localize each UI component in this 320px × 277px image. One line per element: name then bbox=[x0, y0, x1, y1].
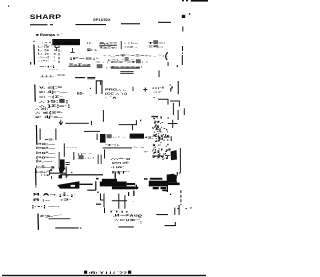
wire verticals down g bbox=[40, 129, 41, 141]
row3 double dash e bbox=[120, 71, 133, 72]
note underline bbox=[49, 217, 71, 220]
ground symbol bbox=[70, 48, 74, 52]
svg-text:+·: +· bbox=[144, 150, 149, 154]
wire vertical n bbox=[104, 149, 105, 158]
header rule dash bbox=[50, 24, 53, 25]
double wire vertical s bbox=[97, 155, 100, 164]
dash right y214 bbox=[156, 214, 168, 215]
svg-text:⊥⊥⊥·: ⊥⊥⊥· bbox=[40, 74, 55, 78]
small tick bbox=[140, 120, 141, 122]
black component bar 2 bbox=[130, 134, 144, 139]
tick above bbox=[115, 172, 116, 179]
svg-text:¦·•·¦ —·: ¦·•·¦ —· bbox=[32, 205, 61, 209]
header rule segment B bbox=[76, 24, 107, 25]
wire corner inner bbox=[158, 99, 168, 104]
right cluster blob bbox=[168, 174, 177, 183]
wire horizontal t bbox=[50, 173, 66, 174]
svg-text:≈≈: ≈≈ bbox=[57, 73, 66, 77]
svg-text:■ Eamạs < ´: ■ Eamạs < ´ bbox=[36, 33, 63, 37]
long wire vertical right bbox=[180, 148, 181, 172]
svg-text:I».—·: I».—· bbox=[36, 160, 53, 164]
svg-text:· ´∧: · ´∧ bbox=[105, 95, 117, 99]
tick y2 bbox=[128, 192, 129, 196]
thick bar long 2 bbox=[100, 182, 127, 187]
thick bar small 3 bbox=[112, 186, 135, 189]
svg-text:v. ≤(:=: v. ≤(:= bbox=[39, 86, 62, 90]
speck top-left bbox=[8, 6, 9, 7]
svg-text:ΓΓΓ´: ΓΓΓ´ bbox=[112, 170, 131, 174]
svg-text:..: .. bbox=[132, 199, 134, 203]
photodetector stipple band bbox=[152, 116, 169, 160]
tick y3 bbox=[133, 191, 134, 196]
svg-text::·: :· bbox=[54, 59, 56, 63]
wire vertical right low2 bbox=[179, 205, 180, 215]
header rule segment A bbox=[30, 24, 48, 25]
left border segment 5 bbox=[37, 214, 39, 230]
wire stub right bbox=[184, 108, 185, 115]
svg-text:- -..=∓⁻=Ξ=÷: . ⁻::: - -..=∓⁻=Ξ=÷: . ⁻:: bbox=[103, 53, 167, 57]
svg-text:Ŧ≥Ξv:: Ŧ≥Ξv: bbox=[99, 45, 117, 49]
S-curve mark bbox=[49, 170, 52, 176]
dash T mid bbox=[152, 156, 164, 159]
svg-text:GP1U52X: GP1U52X bbox=[93, 18, 111, 22]
header square marker bbox=[182, 15, 185, 18]
svg-text:: :=:·: : :=:· bbox=[38, 59, 49, 63]
svg-text:Ξ·: Ξ· bbox=[66, 173, 69, 177]
blob ticks bbox=[177, 172, 178, 176]
rail dot bbox=[71, 172, 72, 173]
svg-text::: : bbox=[48, 81, 49, 85]
svg-text:I»o*—: I»o*— bbox=[36, 151, 57, 155]
tick above 2 bbox=[119, 172, 120, 175]
black component bar 1 bbox=[100, 134, 106, 143]
svg-text:Я ;–: Я ;– bbox=[33, 198, 51, 202]
cap dashes bbox=[66, 163, 70, 165]
left border dot bbox=[33, 41, 34, 42]
detector blob right bbox=[171, 150, 178, 160]
wire L corner bbox=[101, 194, 104, 201]
left mini table divider dashed bbox=[58, 46, 60, 64]
wire bottom b bbox=[119, 226, 134, 227]
wire horizontal d with T bbox=[119, 120, 138, 130]
right header divider bbox=[120, 41, 123, 49]
wire vertical y bbox=[124, 195, 125, 209]
left border segment 4 bbox=[35, 168, 37, 186]
tick below S bbox=[50, 176, 53, 179]
wire vertical p bbox=[66, 167, 67, 179]
wire vertical c bbox=[103, 110, 104, 122]
svg-text:…·: …· bbox=[66, 145, 78, 149]
wire vertical right bbox=[173, 103, 174, 115]
dot b2 bbox=[190, 207, 191, 208]
wire corner w bbox=[87, 181, 96, 190]
tick right bbox=[174, 208, 175, 215]
footer left square bbox=[84, 271, 87, 274]
svg-text:..: .. bbox=[90, 93, 92, 97]
svg-text:.И∼≠∧υϱ: .И∼≠∧υϱ bbox=[113, 214, 142, 218]
wire corner f bbox=[168, 120, 178, 128]
row2 right tick bbox=[167, 62, 170, 66]
row2 left tick bbox=[30, 62, 31, 65]
svg-text:ES·: ES· bbox=[77, 92, 84, 96]
wire vertical x bbox=[104, 194, 105, 208]
wire tick bbox=[132, 87, 135, 91]
black tip bbox=[59, 175, 62, 178]
svg-text:≠·̧≤-⁻·´: ≠·̧≤-⁻·´ bbox=[40, 214, 62, 218]
wire bottom c bbox=[165, 222, 177, 226]
curly tail mark bbox=[166, 52, 168, 60]
row3 dash c bbox=[75, 77, 85, 78]
svg-text:SHARP: SHARP bbox=[30, 14, 61, 21]
footer rule bbox=[2, 275, 206, 276]
row3 double dash d bbox=[87, 77, 95, 78]
arrow down symbol bbox=[59, 120, 63, 125]
wire cross bbox=[112, 194, 127, 209]
T mark under bar bbox=[55, 47, 59, 51]
top-right dots bbox=[182, 0, 184, 1]
svg-text:‹R› Y I I / ´??: ‹R› Y I I / ´?? bbox=[89, 271, 128, 275]
svg-text:≥: 4):⁻—: ≥: 4):⁻— bbox=[39, 90, 69, 94]
sparse tick bbox=[99, 81, 102, 85]
footer right square bbox=[128, 271, 131, 274]
wire horizontal h bbox=[84, 131, 100, 132]
svg-text:+Ξ:: +Ξ: bbox=[144, 136, 153, 140]
svg-text:….: …. bbox=[48, 67, 58, 71]
svg-text::· ¬: :· ¬ bbox=[134, 145, 145, 149]
header dot bbox=[189, 13, 191, 14]
svg-text:Ξ: Ξ bbox=[140, 220, 142, 224]
corner right bbox=[136, 185, 137, 190]
top-right page bar bbox=[191, 0, 208, 2]
wire from wedge bbox=[79, 184, 92, 185]
cluster band B bbox=[149, 181, 167, 187]
wire vertical mid bbox=[64, 143, 65, 156]
header rule segment C bbox=[121, 23, 140, 24]
dots right bbox=[177, 208, 178, 209]
margin dot bbox=[177, 65, 178, 67]
cluster dash left bbox=[144, 178, 148, 180]
svg-text:..: .. bbox=[63, 66, 65, 70]
dash tick pair bbox=[165, 136, 172, 141]
bottom dotted column bbox=[104, 208, 105, 214]
right cluster vertical bbox=[167, 175, 168, 193]
svg-text:≥· 4∫·=‒: ≥· 4∫·=‒ bbox=[35, 115, 63, 119]
svg-text:≈: ⁻⟨Σ⁻: ≈: ⁻⟨Σ⁻ bbox=[39, 95, 64, 99]
svg-text:¦F=S;̈-: ¦F=S;̈- bbox=[70, 56, 100, 60]
svg-text:I»o;—: I»o;— bbox=[36, 142, 57, 146]
svg-text:I»o×—: I»o×— bbox=[36, 146, 57, 150]
svg-text::=≠ -: :=≠ - bbox=[124, 45, 137, 49]
header rule segment D bbox=[158, 22, 171, 23]
wire vertical right e bbox=[178, 110, 179, 120]
wire tick b bbox=[91, 121, 92, 125]
bar3 ext bbox=[135, 187, 138, 189]
svg-text:(»o≈—: (»o≈— bbox=[36, 155, 57, 159]
wire vertical i bbox=[97, 134, 98, 140]
svg-text:Я A–: Я A– bbox=[33, 192, 56, 196]
right margin dash-dot line bbox=[181, 27, 184, 66]
svg-text::: : bbox=[61, 48, 62, 52]
cluster dash below bbox=[162, 190, 168, 192]
black blob capacitor bbox=[60, 159, 65, 169]
package outline top bbox=[96, 81, 102, 94]
T mark left of blob bbox=[165, 156, 170, 159]
left border segment 2 bbox=[34, 85, 36, 102]
plus sign bbox=[143, 88, 147, 92]
wire corner outer bbox=[170, 101, 179, 107]
right wire segment bbox=[178, 81, 179, 94]
bar ext right bbox=[127, 183, 135, 185]
wire horizontal a bbox=[65, 123, 89, 124]
left border segment 3 bbox=[35, 125, 37, 144]
svg-text:…: … bbox=[123, 135, 126, 139]
dash above cluster bbox=[151, 116, 158, 117]
wire vertical q bbox=[73, 152, 74, 160]
svg-text:× ·: ‹·: × ·: ‹· bbox=[44, 43, 58, 47]
small mark bbox=[154, 97, 155, 98]
svg-text::: : bbox=[74, 193, 75, 197]
big black arrow wedge bbox=[57, 181, 79, 188]
left border dot 2 bbox=[35, 186, 36, 187]
row B underline bbox=[111, 67, 140, 70]
wire vertical o bbox=[58, 152, 61, 168]
dot a2 bbox=[170, 194, 171, 195]
thick bar small 1 bbox=[102, 179, 117, 182]
table header inverted bar bbox=[52, 39, 80, 45]
cluster dashes D bbox=[153, 187, 159, 189]
left border segment 1 bbox=[33, 45, 36, 65]
dashed vertical right low bbox=[180, 190, 182, 205]
dash left stub bbox=[96, 178, 99, 180]
wire bottom a bbox=[55, 227, 79, 228]
right dot bbox=[171, 86, 172, 88]
svg-text:‹3·: ‹3· bbox=[60, 197, 72, 201]
row3 vertical tick bbox=[158, 70, 161, 77]
long wire rail bbox=[60, 174, 103, 175]
scatter tail dots bbox=[170, 85, 171, 86]
cluster arm right bbox=[168, 183, 180, 186]
cluster bar A bbox=[150, 178, 163, 180]
